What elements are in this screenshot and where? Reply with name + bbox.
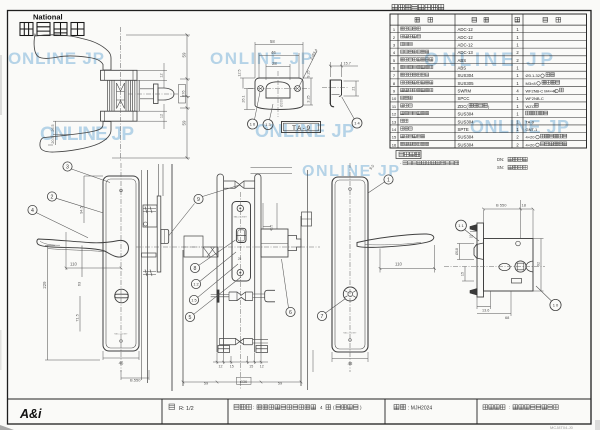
dim 92: [533, 238, 544, 240]
view H: inside lever + plate front: [332, 177, 368, 352]
title block: [8, 398, 592, 400]
centerlines G: [183, 246, 320, 248]
dim 26.1 left: [244, 88, 255, 90]
svg-text:9.25: 9.25: [307, 70, 311, 77]
svg-text:110: 110: [70, 261, 77, 266]
svg-text:Ø3.1-32: Ø3.1-32: [526, 73, 541, 78]
svg-text:6: 6: [289, 310, 292, 316]
svg-text:SPTE: SPTE: [458, 127, 469, 132]
note box: [396, 151, 421, 159]
svg-text:SUS304: SUS304: [458, 135, 475, 140]
svg-text:ONLINE JP: ONLINE JP: [210, 49, 313, 68]
centerlines B: [248, 88, 310, 90]
centerlines I: [444, 266, 545, 268]
svg-text:71.5: 71.5: [75, 314, 80, 322]
dim 12 upper bar: [137, 69, 167, 71]
svg-text:B.550: B.550: [130, 378, 141, 383]
svg-text:12: 12: [260, 365, 264, 369]
small box on frame line: [302, 212, 312, 226]
callout 12: [191, 279, 200, 288]
latch side: [140, 89, 154, 99]
dim 58: [254, 42, 256, 78]
svg-text:15.7: 15.7: [344, 62, 351, 66]
svg-text:59: 59: [278, 380, 283, 385]
svg-text:ADC-12: ADC-12: [458, 42, 474, 47]
svg-text:Ø18: Ø18: [455, 248, 459, 255]
callout 4: [28, 205, 37, 214]
dim 68: [510, 291, 512, 316]
svg-text:1 5: 1 5: [191, 298, 196, 302]
svg-text:13: 13: [392, 119, 397, 124]
cut piece left of G: [184, 236, 218, 257]
svg-text:15: 15: [392, 135, 397, 140]
svg-text:12: 12: [160, 73, 164, 77]
svg-text:MAT-LOCKSET: MAT-LOCKSET: [114, 333, 128, 336]
svg-text:40.5: 40.5: [270, 225, 274, 231]
door frame line right of G: [307, 170, 309, 390]
svg-text:4×20: 4×20: [526, 142, 536, 147]
svg-text::: :: [253, 405, 254, 410]
svg-text:: MJH2024: : MJH2024: [408, 406, 432, 412]
screw hole left: [258, 86, 264, 92]
view E: outside lever + plate front: [103, 176, 139, 351]
rose bar upper: [101, 70, 138, 80]
svg-text:4×20: 4×20: [526, 135, 536, 140]
svg-text:21: 21: [352, 86, 356, 90]
callout 1: [384, 175, 393, 184]
callout 3: [63, 162, 72, 171]
dim 26.5/20.5 left: [53, 120, 100, 122]
svg-text:WZC: WZC: [526, 104, 535, 109]
svg-text:68: 68: [505, 315, 509, 320]
rose bar lower: [101, 111, 138, 121]
svg-text:2: 2: [51, 194, 54, 200]
svg-text:Ø100: Ø100: [280, 99, 284, 107]
svg-text:1: 1: [387, 177, 390, 183]
svg-text:8: 8: [194, 266, 197, 272]
svg-text:5: 5: [189, 315, 192, 321]
lever bottom (side, mirrored): [40, 122, 111, 153]
dim phi18: [457, 243, 474, 245]
door face line right: [300, 216, 302, 386]
svg-text:14: 14: [392, 127, 397, 132]
svg-text:MAT-LOCKSET: MAT-LOCKSET: [343, 332, 357, 335]
dim 110 H: [434, 245, 436, 273]
svg-text:MCJ8T04-J0: MCJ8T04-J0: [550, 425, 574, 430]
strike box behind plate: [143, 205, 157, 227]
svg-text:12: 12: [469, 235, 473, 239]
dim 21: [344, 80, 360, 82]
svg-text:110: 110: [395, 262, 402, 267]
svg-text::: :: [509, 405, 510, 410]
view B: strike plate face: [255, 78, 303, 110]
svg-text:48: 48: [348, 361, 353, 366]
svg-text:National: National: [33, 13, 63, 22]
svg-text:TA-9: TA-9: [526, 119, 535, 124]
svg-text:3.25: 3.25: [307, 95, 311, 102]
svg-text:B36: B36: [240, 379, 247, 384]
svg-text:15: 15: [461, 272, 465, 276]
centerline vertical A: [120, 27, 122, 162]
oval slot: [499, 263, 510, 270]
svg-text:DN:: DN:: [497, 157, 504, 162]
mid thumbturn rod bow-tie: [217, 290, 220, 303]
svg-text:B 550: B 550: [496, 203, 507, 208]
svg-text:1 2: 1 2: [193, 282, 198, 286]
strip end caps: [218, 346, 230, 353]
svg-text:63: 63: [77, 281, 82, 286]
svg-text:7: 7: [321, 314, 324, 320]
dim 12 lower bar: [137, 110, 167, 112]
thumbturn E: [115, 289, 129, 303]
TA-9 label box: [282, 122, 321, 133]
spindle / spring section: [107, 81, 109, 112]
dim 71.5: [79, 296, 81, 332]
svg-text:SUS304: SUS304: [458, 119, 475, 124]
lever top (side): [34, 35, 111, 71]
callout 6: [286, 307, 295, 316]
svg-text:94.5: 94.5: [79, 206, 84, 214]
svg-text:58: 58: [270, 39, 275, 44]
leader to 9: [169, 204, 195, 237]
svg-text:M3×8: M3×8: [526, 81, 537, 86]
svg-text:9: 9: [197, 197, 200, 203]
small stack right of plate: [263, 227, 271, 230]
dim 28: [265, 64, 267, 80]
dim 15 I: [464, 267, 466, 282]
mortise faceplate G: [232, 202, 251, 282]
dim B.550 E: [120, 370, 122, 380]
dim 15.7: [329, 62, 331, 77]
callout 14: [352, 118, 362, 128]
svg-text:59: 59: [204, 380, 209, 385]
screws F: [143, 207, 156, 214]
callout 16: [248, 119, 258, 129]
top bolt bow-tie: [224, 181, 255, 188]
svg-text:T A - 9: T A - 9: [292, 125, 310, 132]
view A: lever handle side view: [34, 35, 139, 153]
svg-text:46: 46: [119, 361, 124, 366]
svg-text:1 4: 1 4: [354, 120, 360, 125]
svg-text:SUS304: SUS304: [458, 142, 475, 147]
svg-text:ONLINE JP: ONLINE JP: [8, 49, 105, 68]
lever E: [37, 239, 129, 257]
small rect: [512, 279, 522, 284]
centerline E: [120, 163, 122, 372]
svg-text:46: 46: [271, 50, 276, 55]
dim 110 E: [65, 232, 67, 270]
svg-text:20.5: 20.5: [51, 136, 55, 143]
svg-text:4: 4: [31, 208, 34, 214]
svg-text:1 3: 1 3: [265, 122, 270, 127]
svg-text:SUS304: SUS304: [458, 73, 475, 78]
callout 5: [185, 312, 194, 321]
svg-text:ABS: ABS: [458, 65, 467, 70]
ext lines right of G top: [251, 167, 293, 169]
bottom bolt bow-tie: [219, 338, 252, 344]
dim 63: [81, 246, 83, 278]
dim 46 E: [102, 351, 104, 360]
svg-text:R: 1/2: R: 1/2: [179, 406, 194, 412]
parts table: [392, 5, 444, 11]
svg-text:229: 229: [42, 281, 47, 289]
centerline horizontal A: [128, 93, 179, 95]
latch bolt F: [161, 230, 169, 244]
latch bolt I: [474, 243, 484, 260]
callout 7: [317, 311, 326, 320]
svg-text:ADC-12: ADC-12: [458, 35, 474, 40]
callout 11: [456, 220, 467, 231]
mortise box edge: [157, 196, 161, 272]
C cutout right: [526, 261, 533, 272]
G bottom small dims: [216, 353, 218, 365]
view G: door section front: [217, 174, 261, 352]
svg-text:1 6: 1 6: [250, 121, 255, 126]
svg-text:ADC-12: ADC-12: [458, 27, 474, 32]
right bracket: [265, 290, 275, 302]
svg-text:876: 876: [182, 91, 186, 97]
svg-text:26.5: 26.5: [51, 124, 55, 131]
lever H: [357, 234, 434, 247]
scan smudges: [0, 425, 14, 430]
svg-text:ABS: ABS: [458, 58, 467, 63]
svg-text:26.1: 26.1: [242, 95, 246, 102]
label 876 box: [179, 85, 186, 104]
svg-text:18: 18: [522, 203, 527, 208]
case body I: [484, 239, 534, 292]
D cutout: [266, 82, 290, 98]
svg-text:ADC-13: ADC-13: [458, 50, 474, 55]
svg-text:SUS305: SUS305: [458, 81, 475, 86]
svg-text:12: 12: [219, 365, 223, 369]
G bottom main dims: [183, 381, 301, 383]
svg-text:GNT-1: GNT-1: [526, 127, 539, 132]
svg-text:1 1: 1 1: [458, 223, 464, 228]
svg-text:3: 3: [66, 164, 69, 170]
svg-text:MAT-LOCKSET: MAT-LOCKSET: [234, 216, 248, 219]
svg-text:28: 28: [272, 61, 277, 66]
svg-text:SN:: SN:: [497, 165, 504, 170]
callout 10: [550, 299, 561, 310]
svg-text:12: 12: [392, 112, 397, 117]
svg-text:92: 92: [537, 262, 541, 266]
svg-text:15: 15: [249, 365, 253, 369]
svg-text:25: 25: [238, 257, 242, 261]
svg-text:59: 59: [181, 52, 186, 57]
crossbar F: [142, 253, 157, 257]
svg-text:12.5: 12.5: [238, 69, 242, 76]
svg-text:59: 59: [181, 120, 186, 125]
svg-text:12: 12: [160, 114, 164, 118]
dim 13.6: [476, 297, 478, 309]
dim 94.5: [83, 176, 85, 223]
hub: [515, 261, 526, 272]
centerline H: [349, 163, 351, 372]
svg-text:10: 10: [392, 96, 397, 101]
mounting tabs: [470, 225, 477, 232]
svg-text:4: 4: [320, 405, 323, 410]
callout 8: [190, 263, 199, 272]
top dims B550/18: [483, 210, 485, 223]
callout 13: [263, 120, 273, 130]
svg-text:A&i: A&i: [19, 407, 42, 421]
view C: cover hook profile: [329, 80, 331, 105]
faceplate I: [477, 223, 484, 297]
dim 48 H: [331, 352, 333, 362]
case ext lines up: [262, 203, 264, 229]
svg-text:13.6: 13.6: [482, 309, 489, 313]
callout 2: [47, 192, 56, 201]
callout 15: [189, 295, 198, 304]
svg-text:15: 15: [230, 365, 234, 369]
svg-text:WF2NB-C M4×40: WF2NB-C M4×40: [526, 89, 558, 94]
screw hole right: [295, 86, 301, 92]
leader 2-phi3.4: [299, 51, 317, 87]
latch bolt front G: [236, 228, 246, 242]
callout 9: [194, 194, 203, 203]
dim 229: [45, 245, 55, 247]
svg-text:16: 16: [392, 142, 397, 147]
dim 9.25 right: [303, 77, 313, 79]
dim 12.5 left: [240, 77, 255, 79]
view F: lock case edge view: [141, 170, 143, 380]
thumbturn H: [343, 287, 357, 301]
lock case side G: [261, 229, 288, 257]
svg-text:SUS304: SUS304: [458, 112, 475, 117]
svg-text:ONLINE JP: ONLINE JP: [424, 50, 554, 71]
dim 46: [258, 53, 260, 78]
centerline F: [136, 246, 200, 248]
svg-text:SPCC: SPCC: [458, 96, 470, 101]
svg-text:1 0: 1 0: [553, 302, 559, 307]
dim 59/59 right: [126, 34, 190, 36]
svg-text:WF2NB-C: WF2NB-C: [526, 96, 544, 101]
door face line left: [182, 250, 184, 386]
dim 3.25 right: [303, 104, 313, 106]
svg-text:ZDC(: ZDC(: [458, 104, 469, 109]
svg-text:SWRM: SWRM: [458, 89, 472, 94]
